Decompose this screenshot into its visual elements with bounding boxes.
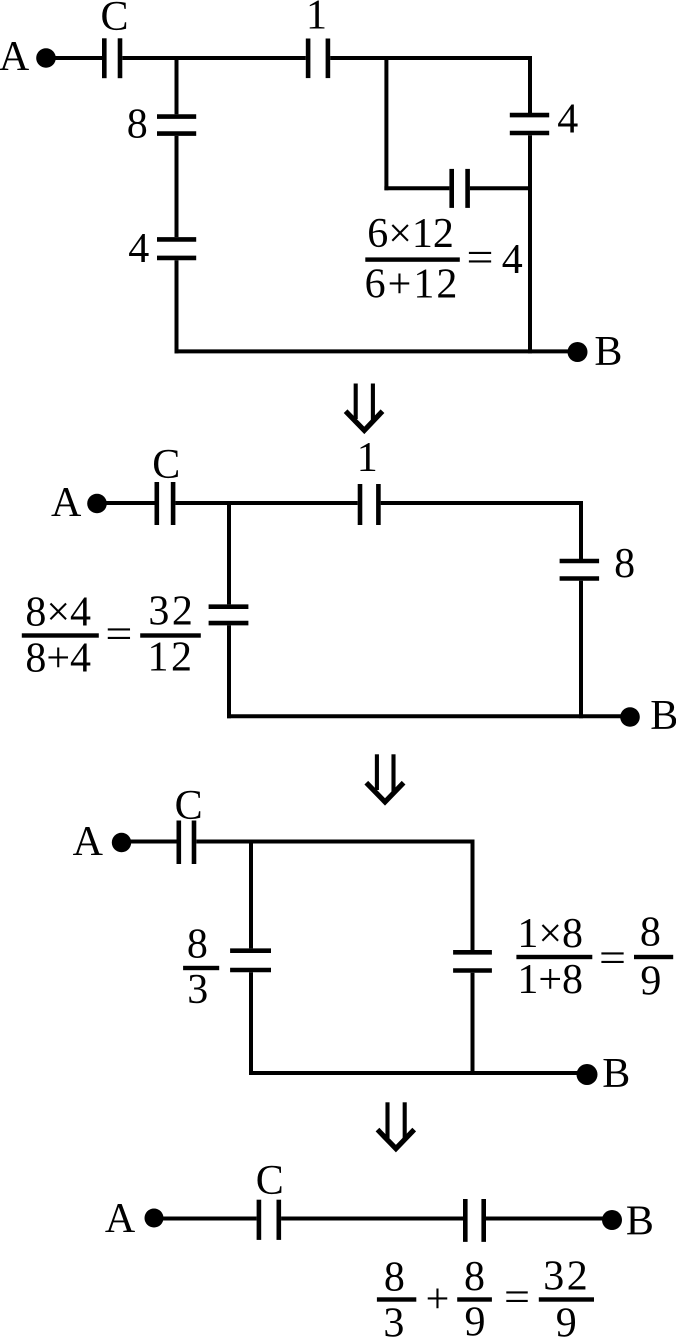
node B terminal dot xyxy=(568,342,588,362)
svg-text:32: 32 xyxy=(543,1254,590,1300)
svg-text:8: 8 xyxy=(127,101,148,147)
svg-text:9: 9 xyxy=(640,959,661,1005)
capacitor 8/3 plates xyxy=(230,951,271,970)
svg-text:1+8: 1+8 xyxy=(517,957,583,1003)
svg-text:B: B xyxy=(602,1051,630,1097)
wire A to capacitor C xyxy=(162,1217,257,1221)
svg-text:+: + xyxy=(426,1277,450,1323)
node A terminal dot xyxy=(112,833,131,852)
svg-text:4: 4 xyxy=(128,226,149,272)
svg-text:8: 8 xyxy=(464,1254,485,1300)
node B terminal dot xyxy=(577,1064,598,1085)
formula second fraction bar xyxy=(457,1297,492,1301)
svg-text:8: 8 xyxy=(384,1255,405,1301)
svg-text:3: 3 xyxy=(383,1301,404,1338)
svg-text:C: C xyxy=(256,1158,284,1204)
wire middle junction down xyxy=(384,56,388,190)
node A terminal dot xyxy=(87,494,107,514)
svg-text:3: 3 xyxy=(187,967,208,1013)
wire left column top segment xyxy=(175,56,179,114)
svg-text:8×4: 8×4 xyxy=(25,590,91,636)
capacitor 1 plates xyxy=(360,484,378,525)
wire A to capacitor C xyxy=(54,56,103,60)
capacitor C plates xyxy=(179,821,194,865)
svg-text:A: A xyxy=(0,34,30,80)
capacitor 32/12 plates xyxy=(209,607,249,623)
capacitor C plates xyxy=(104,38,120,78)
svg-text:1: 1 xyxy=(306,0,327,38)
wire right column top segment xyxy=(528,56,532,113)
svg-text:1: 1 xyxy=(357,435,378,481)
svg-text:32: 32 xyxy=(148,589,195,635)
wire bottom rail xyxy=(227,714,630,718)
svg-text:4: 4 xyxy=(557,96,578,142)
svg-text:C: C xyxy=(175,783,203,829)
svg-text:C: C xyxy=(152,442,180,488)
wire left column bottom segment xyxy=(249,972,253,1075)
formula first fraction bar xyxy=(377,1297,416,1301)
wire capacitor C to top-right corner xyxy=(196,840,474,844)
wire inner branch left xyxy=(384,186,449,190)
capacitor 4 (inner, 6 and 12 combined) plates xyxy=(452,169,468,208)
svg-text:8: 8 xyxy=(640,910,661,956)
node B terminal dot xyxy=(602,1210,622,1230)
capacitor 4 (right) plates xyxy=(510,115,549,133)
svg-text:C: C xyxy=(100,0,128,40)
wire capacitor 1 to top-right corner xyxy=(381,501,583,505)
formula fraction bar xyxy=(365,257,460,261)
svg-text:B: B xyxy=(594,329,622,375)
capacitor 8/9 plates xyxy=(453,952,492,970)
formula result fraction bar xyxy=(140,633,201,637)
svg-text:8: 8 xyxy=(614,541,635,587)
wire capacitor 1 to top-right corner xyxy=(330,56,532,60)
formula fraction bar xyxy=(22,633,99,637)
wire left column bottom segment xyxy=(227,625,231,718)
svg-text:6×12: 6×12 xyxy=(367,211,454,257)
svg-text:8: 8 xyxy=(187,921,208,967)
svg-text:8+4: 8+4 xyxy=(25,635,91,681)
node A terminal dot xyxy=(145,1209,164,1228)
label 8/3 fraction bar xyxy=(183,966,219,970)
svg-text:=: = xyxy=(504,1275,530,1321)
double arrow 3 xyxy=(378,1102,415,1148)
wire A to capacitor C xyxy=(105,501,155,505)
svg-text:=: = xyxy=(105,612,132,658)
wire right column lower segment xyxy=(528,135,532,353)
svg-text:6+12: 6+12 xyxy=(365,261,460,307)
wire inner branch right xyxy=(470,186,532,190)
svg-text:A: A xyxy=(51,480,82,526)
formula fraction bar xyxy=(516,955,592,959)
wire A to capacitor C xyxy=(130,840,177,844)
double arrow 2 xyxy=(366,754,403,802)
wire left column bottom segment xyxy=(175,260,179,353)
svg-text:1×8: 1×8 xyxy=(517,911,583,957)
wire left column top segment xyxy=(249,842,253,949)
node A terminal dot xyxy=(36,48,56,68)
svg-text:=: = xyxy=(467,235,494,281)
wire capacitor C to capacitor 1 xyxy=(175,501,357,505)
wire capacitor C to capacitor 1 xyxy=(122,56,305,60)
wire right column bottom segment xyxy=(471,973,475,1075)
capacitor C plates xyxy=(259,1200,279,1240)
capacitor 8/9 plates xyxy=(465,1199,483,1242)
capacitor 4 (left) plates xyxy=(157,239,196,258)
svg-text:4: 4 xyxy=(502,237,523,283)
wire capacitor 8/9 to B xyxy=(486,1217,604,1221)
wire bottom rail xyxy=(175,349,578,353)
wire right column bottom segment xyxy=(579,581,583,719)
capacitor 8 plates xyxy=(560,561,600,579)
formula result fraction bar xyxy=(539,1297,594,1301)
svg-text:9: 9 xyxy=(556,1300,577,1338)
wire right column top segment xyxy=(471,840,475,951)
node B terminal dot xyxy=(620,707,640,727)
svg-text:9: 9 xyxy=(465,1300,486,1338)
svg-text:B: B xyxy=(650,693,676,739)
wire left column top segment xyxy=(227,503,231,604)
double arrow 1 xyxy=(346,384,383,431)
wire capacitor C to capacitor 8/9 xyxy=(281,1217,463,1221)
svg-text:B: B xyxy=(626,1198,654,1244)
svg-text:=: = xyxy=(599,936,626,982)
wire left column middle segment xyxy=(175,136,179,237)
capacitor C plates xyxy=(157,482,173,525)
svg-text:12: 12 xyxy=(148,634,195,680)
wire bottom rail xyxy=(249,1071,587,1075)
capacitor 8 plates xyxy=(157,117,196,134)
wire right column top segment xyxy=(579,501,583,559)
capacitor 1 plates xyxy=(308,39,328,79)
formula result fraction bar xyxy=(634,955,673,959)
svg-text:A: A xyxy=(73,819,104,865)
svg-text:A: A xyxy=(105,1196,136,1242)
